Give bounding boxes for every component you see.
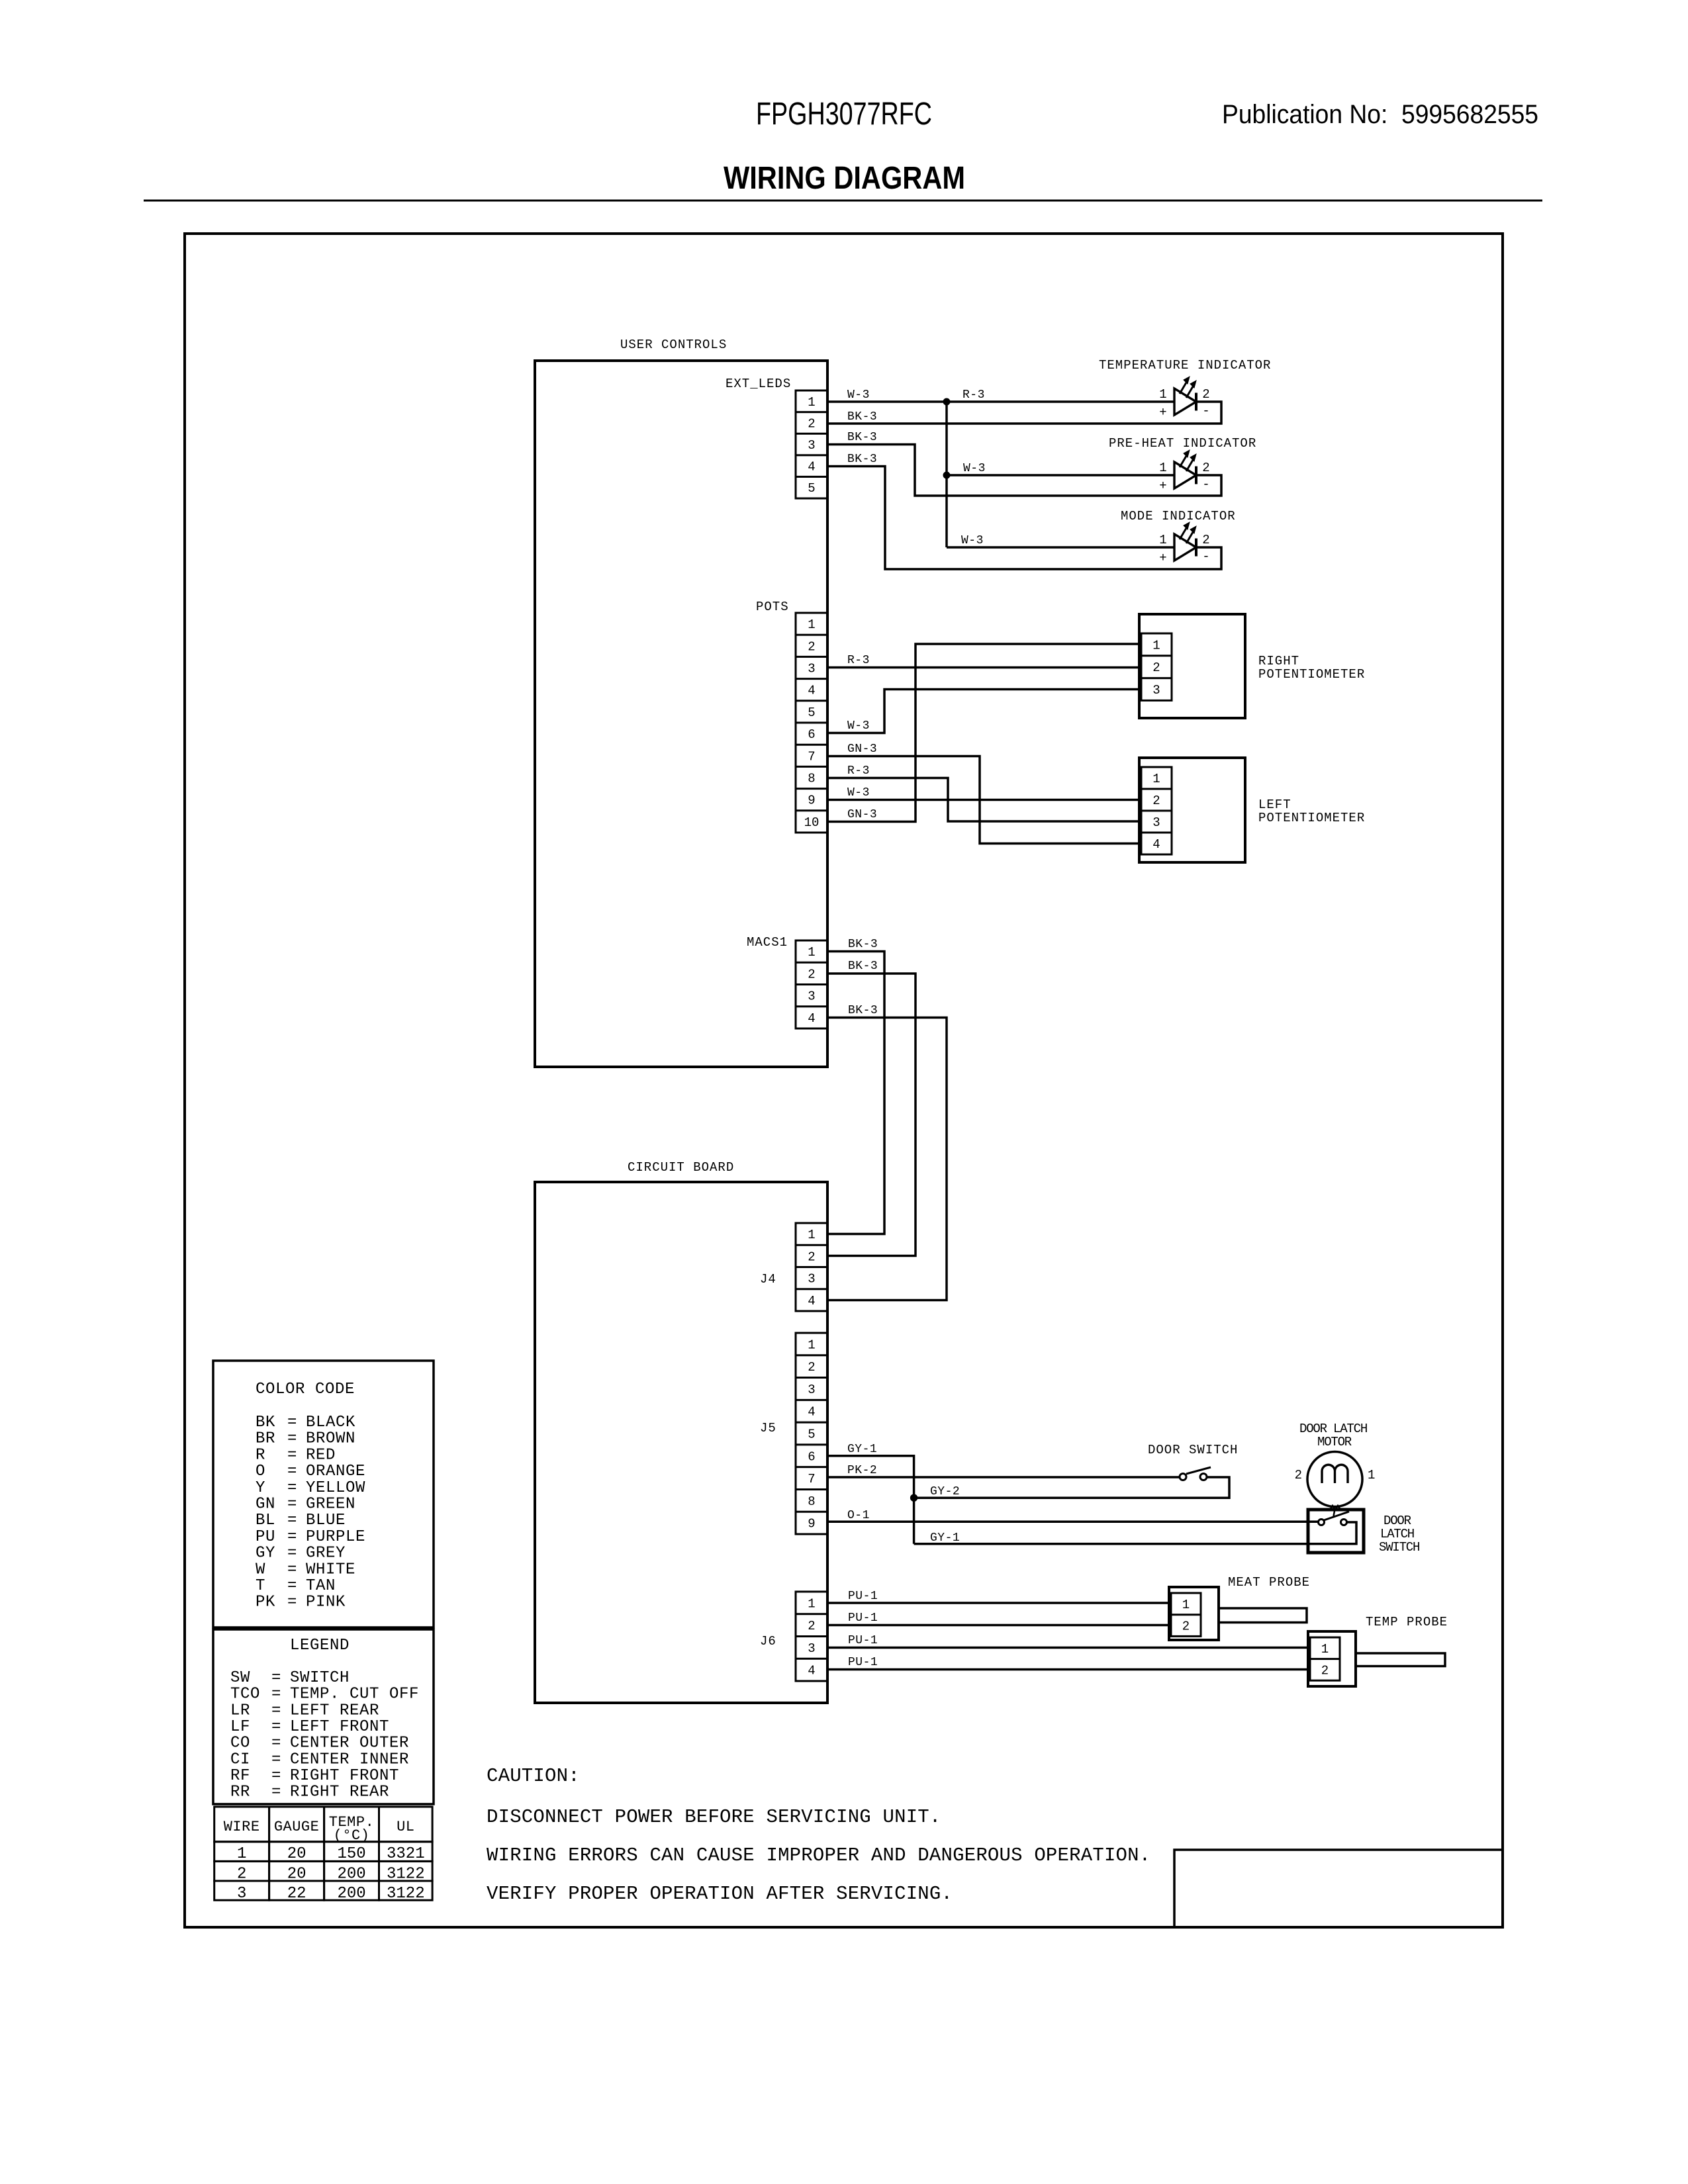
left potentiometer pins 1-4 [1141,767,1172,854]
svg-text:3: 3 [1152,815,1160,830]
svg-text:=: = [287,1545,297,1563]
connector MACS1 pins 1-4 [796,940,827,1028]
wire W-3 to pre-heat LED anode [947,474,1174,477]
title block box [1174,1850,1503,1927]
svg-text:2: 2 [808,416,815,431]
svg-text:SW: SW [230,1669,250,1687]
motor door latch motor [1295,1452,1376,1510]
svg-text:GY-1: GY-1 [847,1443,877,1456]
svg-text:POTS: POTS [756,600,789,614]
svg-text:=: = [287,1512,297,1529]
temp probe body [1308,1631,1445,1686]
svg-text:=: = [271,1669,281,1687]
svg-text:=: = [271,1735,281,1752]
svg-text:3: 3 [808,662,815,676]
meat probe body [1169,1587,1307,1640]
svg-text:J6: J6 [760,1634,776,1649]
temp probe pins 1-2 [1310,1637,1340,1680]
wire W-3 to mode LED anode [947,546,1174,549]
connector J5 pins 1-9 [796,1333,827,1534]
svg-text:GY-1: GY-1 [930,1531,960,1545]
wire BK-3 temperature LED return to pin2 [827,402,1221,424]
wire GY-1 J5 pin6 vertical [827,1456,914,1544]
svg-text:DOOR SWITCH: DOOR SWITCH [1148,1443,1238,1457]
svg-text:GN-3: GN-3 [847,743,877,756]
svg-text:O-1: O-1 [847,1509,870,1522]
svg-text:=: = [287,1479,297,1497]
svg-text:EXT_LEDS: EXT_LEDS [726,377,791,391]
svg-text:6: 6 [808,1449,815,1464]
svg-text:3: 3 [808,1383,815,1397]
svg-text:+: + [1159,405,1166,420]
svg-text:BLUE: BLUE [306,1512,346,1529]
svg-text:1: 1 [1159,387,1166,402]
wire BK-3 MACS1 pin4 to J4 pin4 [827,1018,947,1300]
svg-text:3122: 3122 [387,1866,425,1884]
svg-text:YELLOW: YELLOW [306,1479,365,1497]
svg-text:CIRCUIT BOARD: CIRCUIT BOARD [628,1160,734,1175]
svg-text:2: 2 [808,1360,815,1375]
svg-text:WIRE: WIRE [224,1819,260,1835]
svg-text:CAUTION:: CAUTION: [487,1765,580,1787]
svg-text:=: = [271,1718,281,1736]
svg-text:22: 22 [287,1885,306,1903]
wire GY-2 junction to door switch return [914,1477,1229,1498]
svg-text:(°C): (°C) [334,1827,370,1844]
wire PU-1 J6 pin3 to temp probe pin1 [827,1647,1310,1649]
svg-text:5: 5 [808,1428,815,1442]
svg-text:1: 1 [808,617,815,632]
wire BK-3 MACS1 pin1 to J4 pin1 [827,952,884,1234]
svg-text:LEGEND: LEGEND [290,1637,350,1655]
svg-text:2: 2 [1321,1663,1329,1678]
svg-text:2: 2 [237,1866,246,1884]
svg-text:1: 1 [1159,533,1166,547]
right potentiometer box [1139,614,1245,718]
svg-text:CO: CO [230,1735,250,1752]
LED temperature indicator [1159,377,1209,420]
svg-text:W-3: W-3 [847,388,870,402]
wire R-3 pin8 to left potentiometer pin3 [827,778,1141,822]
svg-text:DOOR LATCH: DOOR LATCH [1299,1422,1367,1436]
label DOOR LATCH SWITCH [1379,1514,1419,1555]
svg-text:-: - [1202,477,1209,492]
svg-text:RIGHT REAR: RIGHT REAR [290,1784,389,1801]
svg-text:GY: GY [256,1545,275,1563]
svg-text:VERIFY PROPER OPERATION AFTER: VERIFY PROPER OPERATION AFTER SERVICING. [487,1883,953,1905]
svg-text:8: 8 [808,772,815,786]
wire PU-1 J6 pin1 to meat probe pin1 [827,1602,1171,1604]
svg-text:=: = [271,1751,281,1768]
heading underline [144,200,1542,202]
drawing border [185,234,1503,1927]
user controls board box [535,361,827,1067]
svg-text:BK-3: BK-3 [847,410,877,424]
svg-text:4: 4 [808,1294,815,1308]
svg-text:MEAT PROBE: MEAT PROBE [1228,1575,1310,1590]
svg-text:RR: RR [230,1784,250,1801]
svg-text:4: 4 [808,684,815,698]
wire PU-1 J6 pin4 to temp probe pin2 [827,1668,1310,1671]
svg-text:=: = [287,1496,297,1514]
svg-text:O: O [256,1463,265,1480]
svg-text:Publication No: 5995682555: Publication No: 5995682555 [1222,100,1538,129]
svg-text:BK-3: BK-3 [848,960,878,973]
color code box [213,1361,434,1627]
svg-text:4: 4 [808,1664,815,1678]
svg-text:BK-3: BK-3 [848,1004,878,1017]
svg-text:=: = [271,1702,281,1719]
svg-text:2: 2 [1202,533,1209,547]
svg-text:2: 2 [808,1250,815,1264]
svg-text:PU-1: PU-1 [848,1590,878,1603]
svg-text:BR: BR [256,1430,275,1448]
svg-text:ORANGE: ORANGE [306,1463,365,1480]
svg-text:BROWN: BROWN [306,1430,355,1448]
svg-text:PK: PK [256,1594,275,1612]
svg-text:W: W [256,1561,265,1578]
svg-text:PINK: PINK [306,1594,346,1612]
svg-text:RF: RF [230,1767,250,1785]
wire O-1 J5 pin9 to door latch switch [827,1520,1318,1523]
svg-text:BL: BL [256,1512,275,1529]
svg-text:W-3: W-3 [847,786,870,799]
svg-text:3: 3 [808,1641,815,1656]
svg-text:LR: LR [230,1702,250,1719]
svg-text:+: + [1159,478,1166,493]
svg-text:4: 4 [808,460,815,475]
svg-text:-: - [1202,549,1209,564]
svg-text:GREY: GREY [306,1545,346,1563]
wire R-3 pin3 to right potentiometer pin2 [827,666,1141,669]
svg-text:PK-2: PK-2 [847,1464,877,1477]
svg-text:=: = [287,1594,297,1612]
svg-text:=: = [287,1430,297,1448]
svg-text:20: 20 [287,1866,306,1884]
wire W-3 vertical distribution [945,402,948,547]
svg-text:=: = [271,1686,281,1704]
svg-text:=: = [271,1784,281,1801]
door latch switch box [1308,1510,1364,1553]
svg-text:=: = [287,1528,297,1546]
svg-text:R-3: R-3 [962,388,985,402]
svg-text:=: = [287,1561,297,1578]
svg-text:2: 2 [1152,660,1160,675]
wire W-3 pin9 to left potentiometer pin2 [827,799,1141,801]
svg-text:GY-2: GY-2 [930,1485,960,1498]
svg-text:LF: LF [230,1718,250,1736]
svg-text:WIRING ERRORS CAN CAUSE IMPROP: WIRING ERRORS CAN CAUSE IMPROPER AND DAN… [487,1844,1150,1866]
svg-text:3122: 3122 [387,1885,425,1903]
svg-text:W-3: W-3 [963,462,986,475]
svg-text:1: 1 [1159,461,1166,475]
svg-text:DISCONNECT POWER BEFORE SERVIC: DISCONNECT POWER BEFORE SERVICING UNIT. [487,1806,941,1828]
wire BK-3 MACS1 pin2 to J4 pin2 [827,974,915,1256]
wire GN-3 pin7 to left potentiometer pin4 [827,756,1141,844]
svg-text:1: 1 [808,395,815,410]
svg-text:POTENTIOMETER: POTENTIOMETER [1258,667,1365,682]
svg-text:J4: J4 [760,1272,776,1287]
svg-text:BK-3: BK-3 [848,938,878,951]
svg-text:RED: RED [306,1446,336,1464]
svg-text:10: 10 [804,815,820,830]
svg-text:PU-1: PU-1 [848,1612,878,1625]
svg-text:SWITCH: SWITCH [290,1669,350,1687]
svg-text:WIRING DIAGRAM: WIRING DIAGRAM [724,161,965,196]
svg-text:3: 3 [808,438,815,453]
svg-text:R-3: R-3 [847,764,870,778]
svg-text:1: 1 [808,1228,815,1242]
svg-text:GAUGE: GAUGE [274,1819,320,1835]
label LEFT POTENTIOMETER [1258,797,1365,825]
svg-text:20: 20 [287,1845,306,1863]
svg-text:=: = [271,1767,281,1785]
svg-text:UL: UL [397,1819,414,1835]
circuit board box [535,1182,827,1703]
svg-text:LATCH: LATCH [1380,1527,1414,1541]
svg-text:FPGH3077RFC: FPGH3077RFC [756,97,932,132]
svg-text:9: 9 [808,794,815,808]
svg-text:POTENTIOMETER: POTENTIOMETER [1258,811,1365,825]
junction dot pre-heat branch [943,472,950,478]
svg-text:2: 2 [1202,461,1209,475]
svg-text:2: 2 [808,967,815,981]
wire GN-3 pin10 to right potentiometer pin1 [827,644,1141,822]
svg-text:4: 4 [1152,837,1160,852]
wire BK-3 pin4 to mode LED return [827,467,1221,570]
label RIGHT POTENTIOMETER [1258,654,1365,682]
svg-text:8: 8 [808,1494,815,1509]
svg-text:J5: J5 [760,1421,776,1435]
svg-text:9: 9 [808,1517,815,1531]
wire PU-1 J6 pin2 to meat probe pin2 [827,1624,1171,1627]
svg-text:=: = [287,1446,297,1464]
legend text [230,1637,419,1801]
svg-text:TAN: TAN [306,1577,336,1595]
svg-text:PU: PU [256,1528,275,1546]
svg-text:LEFT REAR: LEFT REAR [290,1702,379,1719]
svg-text:PU-1: PU-1 [848,1634,878,1647]
svg-text:200: 200 [337,1885,365,1903]
svg-text:1: 1 [1182,1598,1190,1612]
svg-text:GN: GN [256,1496,275,1514]
svg-text:150: 150 [337,1845,365,1863]
svg-text:1: 1 [808,1596,815,1611]
svg-text:6: 6 [808,727,815,742]
LED pre-heat indicator [1159,450,1209,493]
svg-text:MODE INDICATOR: MODE INDICATOR [1121,509,1236,523]
wire W-3 pin1 to temperature LED anode [827,400,1174,403]
svg-text:4: 4 [808,1011,815,1026]
svg-text:BK-3: BK-3 [847,431,877,444]
svg-text:1: 1 [808,945,815,960]
connector J6 pins 1-4 [796,1592,827,1681]
svg-text:LEFT FRONT: LEFT FRONT [290,1718,389,1736]
svg-text:2: 2 [1202,387,1209,402]
svg-text:2: 2 [808,639,815,654]
connector J4 pins 1-4 [796,1223,827,1311]
svg-text:3: 3 [808,989,815,1004]
svg-text:1: 1 [237,1845,246,1863]
wire PK-2 J5 pin7 to door switch [827,1476,1180,1479]
left potentiometer box [1139,758,1245,862]
wire BK-3 pin3 to pre-heat LED return [827,445,1221,496]
svg-text:2: 2 [808,1619,815,1633]
svg-text:CI: CI [230,1751,250,1768]
svg-text:GREEN: GREEN [306,1496,355,1514]
svg-text:MOTOR: MOTOR [1317,1435,1352,1449]
svg-text:2: 2 [1152,794,1160,808]
svg-text:1: 1 [1152,772,1160,786]
svg-text:GN-3: GN-3 [847,808,877,821]
svg-text:4: 4 [808,1405,815,1420]
wire GY-1 to door latch switch [914,1522,1356,1544]
svg-text:3: 3 [808,1272,815,1287]
svg-text:TEMP PROBE: TEMP PROBE [1366,1615,1448,1629]
svg-text:1: 1 [1368,1468,1375,1482]
svg-text:TEMP. CUT OFF: TEMP. CUT OFF [290,1686,419,1704]
svg-text:-: - [1202,404,1209,418]
svg-text:RIGHT: RIGHT [1258,654,1299,668]
svg-text:R-3: R-3 [847,654,870,667]
svg-text:LEFT: LEFT [1258,797,1291,812]
svg-text:Y: Y [256,1479,265,1497]
color code table text [256,1381,365,1612]
right potentiometer pins 1-3 [1141,633,1172,700]
svg-text:BK: BK [256,1414,275,1432]
svg-text:3321: 3321 [387,1845,425,1863]
svg-text:+: + [1159,551,1166,565]
svg-text:2: 2 [1182,1619,1190,1634]
connector EXT_LEDS pins 1-5 [796,390,827,498]
svg-text:SWITCH: SWITCH [1379,1540,1419,1555]
label DOOR LATCH MOTOR [1299,1422,1367,1449]
svg-text:=: = [287,1463,297,1480]
svg-text:COLOR CODE: COLOR CODE [256,1381,355,1398]
svg-text:RIGHT FRONT: RIGHT FRONT [290,1767,399,1785]
svg-text:DOOR: DOOR [1383,1514,1411,1528]
svg-text:TEMPERATURE INDICATOR: TEMPERATURE INDICATOR [1099,358,1271,373]
svg-text:R: R [256,1446,265,1464]
svg-text:WHITE: WHITE [306,1561,355,1578]
svg-text:1: 1 [1152,638,1160,653]
svg-text:T: T [256,1577,265,1595]
svg-text:1: 1 [808,1338,815,1352]
junction dot GY-2 branch [910,1494,917,1501]
junction dot node R-3/W-3 [943,398,950,405]
svg-text:5: 5 [808,705,815,720]
svg-text:BK-3: BK-3 [847,453,877,466]
svg-text:W-3: W-3 [961,534,984,547]
legend box [213,1629,434,1804]
svg-text:CENTER INNER: CENTER INNER [290,1751,409,1768]
svg-text:MACS1: MACS1 [747,935,788,950]
svg-text:BLACK: BLACK [306,1414,355,1432]
svg-text:=: = [287,1414,297,1432]
svg-text:TCO: TCO [230,1686,260,1704]
svg-text:CENTER OUTER: CENTER OUTER [290,1735,409,1752]
svg-text:7: 7 [808,749,815,764]
switch door latch switch [1319,1511,1350,1525]
wire W-3 pin6 to right potentiometer pin3 [827,690,1141,733]
LED mode indicator [1159,522,1209,565]
connector POTS pins 1-10 [796,613,827,833]
svg-text:7: 7 [808,1472,815,1486]
svg-text:5: 5 [808,481,815,496]
svg-text:3: 3 [237,1885,246,1903]
svg-text:200: 200 [337,1866,365,1884]
svg-text:2: 2 [1295,1468,1302,1482]
svg-text:=: = [287,1577,297,1595]
svg-text:USER CONTROLS: USER CONTROLS [620,338,727,352]
wire gauge UL table [214,1807,432,1903]
svg-text:PRE-HEAT INDICATOR: PRE-HEAT INDICATOR [1109,436,1256,451]
svg-text:1: 1 [1321,1642,1329,1657]
svg-text:3: 3 [1152,683,1160,698]
svg-text:PU-1: PU-1 [848,1656,878,1669]
svg-text:PURPLE: PURPLE [306,1528,365,1546]
svg-text:W-3: W-3 [847,719,870,733]
meat probe pins 1-2 [1171,1593,1201,1636]
switch door switch [1180,1467,1211,1480]
